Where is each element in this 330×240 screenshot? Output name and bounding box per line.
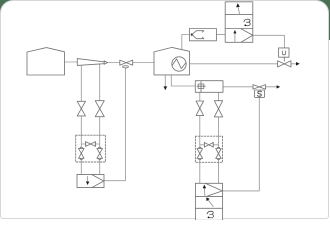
wire: column left A (x=81.3) ejector drop to filter F1 — [80, 65, 82, 175]
wire: compressor to control valve CV1 main line — [186, 63, 297, 65]
wire: cyclone CY1 outlet to control valve actuator — [253, 35, 285, 48]
CY1 middle compartment swirl — [244, 19, 250, 26]
control valve CV1 actuator — [279, 48, 289, 57]
valve V3 (left column B hourglass) — [95, 101, 104, 117]
wire: fluidizer FL1 to valve SV1 and arrow — [223, 86, 277, 88]
control valve CV1 body — [278, 61, 291, 67]
wire: tank T2 bottom drain to fluidizer FL1 — [171, 75, 195, 86]
CY1 bottom compartment vent line and separator triangle — [234, 33, 236, 43]
wire: bridge in D2 — [200, 144, 219, 146]
wire: ejector to valve V1 to tank T2 — [107, 62, 155, 64]
tank T2 (compressor housing) — [154, 47, 190, 75]
compressor U1 (circle with blade curve) — [172, 57, 186, 71]
valve V11 (small hourglass in D2 column B) — [216, 147, 222, 159]
fan FB1 (blower box above tank T2) — [189, 29, 216, 41]
wire: valve V1 drain down, left to filter F1 outlet — [104, 68, 125, 181]
dashed enclosure D1 (left valve group) — [76, 135, 106, 162]
wire: S box down, left to cyclone CY2 outlet — [223, 97, 260, 190]
valve V10 (small hourglass in D2 column A) — [197, 147, 203, 159]
CY1 top compartment up-arrow — [238, 7, 240, 14]
valve V8 (small hourglass in D1 column B) — [97, 147, 103, 159]
wire: compressor drain with arrow — [165, 64, 172, 86]
wire: fan FB1 to cyclone CY1 — [216, 34, 225, 36]
arrow: compressor drain down — [164, 86, 168, 90]
valve V7 (small hourglass in D1 column A) — [79, 147, 85, 159]
valve V6 (bridge bowtie in D1) — [86, 142, 96, 147]
fluidizer FL1 (box with cross orifice) — [195, 81, 223, 93]
valve V4 (right column A hourglass) — [196, 101, 204, 116]
cyclone CY1 (top-right stacked separator) — [225, 2, 253, 43]
arrow: main line outlet — [296, 62, 300, 66]
cyclone CY2 (bottom-middle stacked separator) — [195, 183, 222, 220]
filter F1 (bottom-left box) — [77, 174, 104, 187]
CY2 top compartment up-arrow — [203, 188, 206, 196]
valve V5 (right column B hourglass) — [214, 101, 222, 117]
CY2 bottom compartment swirl — [207, 211, 213, 218]
wire: column right A (x=199.8) fluidizer to cyclone CY2 — [199, 92, 201, 183]
dashed enclosure D2 (right valve group) — [195, 136, 222, 162]
ejector E1 — [77, 59, 107, 66]
CY2 top compartment separator triangle — [206, 184, 223, 197]
wire: bridge in D1 — [81, 143, 99, 145]
wire: tank T2 vent up to fan FB1 — [182, 35, 190, 51]
valve V9 (bridge bowtie in D2) — [204, 142, 213, 147]
wire: column right B (x=218.5) fluidizer to cyclone CY2 — [218, 92, 220, 183]
wire: column left B (x=99.7) ejector drop to filter F1 — [99, 64, 101, 175]
CY2 middle compartment diagonal arrow — [208, 200, 213, 207]
valve V1 (butterfly valve on main line) — [120, 60, 133, 68]
arrow: solenoid line outlet — [277, 85, 281, 88]
tank T1 (storage silo, top-left) — [27, 48, 65, 75]
valve SV1 (solenoid valve) — [253, 85, 266, 90]
page background (green peeks at rounded top corners) — [0, 0, 330, 40]
wire: tank T1 outlet to ejector — [65, 61, 78, 63]
valve V2 (left column A hourglass) — [77, 101, 85, 116]
solenoid S box — [254, 90, 264, 97]
